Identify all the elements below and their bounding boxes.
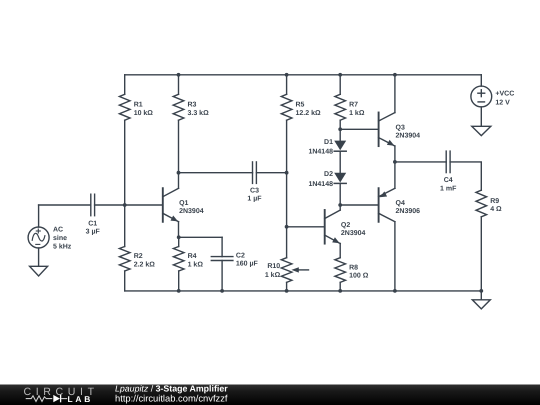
node C1 right: [123, 203, 127, 207]
node C3 right: [285, 171, 289, 175]
svg-text:R8: R8: [349, 264, 358, 271]
svg-text:1N4148: 1N4148: [308, 181, 333, 188]
wire R7 node to Q3 base: [340, 128, 378, 130]
node R3 top: [177, 73, 181, 77]
wire node to Q1 base: [125, 204, 163, 206]
resistor R1: [119, 75, 153, 205]
resistor R9: [476, 190, 502, 291]
ground (bottom rail): [472, 291, 490, 309]
svg-text:+VCC: +VCC: [495, 91, 514, 98]
wire D2 to node: [339, 183, 341, 205]
node R7 bottom: [338, 127, 342, 131]
resistor R3: [173, 75, 209, 173]
svg-text:2N3906: 2N3906: [396, 208, 421, 215]
svg-text:3.3 kΩ: 3.3 kΩ: [188, 109, 210, 117]
resistor R8: [335, 258, 369, 291]
svg-text:C2: C2: [236, 252, 245, 259]
wire Q2 base tee to Q2: [287, 226, 325, 228]
node R5 top: [285, 73, 289, 77]
transistor Q4 2N3906: [379, 162, 421, 291]
node C2 bottom rail: [220, 289, 224, 293]
svg-text:R9: R9: [490, 198, 499, 205]
svg-text:D1: D1: [324, 139, 333, 146]
node R7 top: [338, 73, 342, 77]
svg-text:R2: R2: [134, 253, 143, 260]
capacitor C1: [86, 194, 101, 236]
resistor R7: [335, 75, 365, 130]
resistor R5: [281, 75, 321, 173]
svg-text:Q1: Q1: [179, 200, 188, 207]
wire bottom rail: [125, 290, 482, 292]
svg-text:sine: sine: [53, 234, 67, 242]
potentiometer R10: [265, 258, 309, 291]
svg-text:1 kΩ: 1 kΩ: [349, 109, 365, 117]
svg-text:2N3904: 2N3904: [396, 132, 421, 139]
svg-text:3 µF: 3 µF: [86, 229, 101, 236]
svg-text:C3: C3: [250, 187, 259, 194]
wire top rail: [125, 74, 482, 76]
ground (VCC): [472, 126, 491, 135]
wire AC to C1: [39, 204, 91, 206]
svg-text:C1: C1: [88, 221, 97, 228]
node R8 bottom rail: [338, 289, 342, 293]
node D2 bottom: [338, 203, 342, 207]
svg-text:LAB: LAB: [68, 394, 94, 404]
node output: [393, 160, 397, 164]
svg-text:2.2 kΩ: 2.2 kΩ: [134, 260, 156, 268]
wire D1 to D2: [339, 151, 341, 173]
wire output node to C4: [395, 161, 446, 163]
AC source V2: [28, 205, 72, 266]
voltage source V1 +VCC: [471, 75, 514, 127]
svg-text:1 µF: 1 µF: [247, 195, 262, 202]
svg-text:http://circuitlab.com/cnvfzzf: http://circuitlab.com/cnvfzzf: [115, 393, 228, 404]
svg-text:R5: R5: [296, 102, 305, 109]
wire C1 to node: [95, 204, 125, 206]
capacitor C4: [440, 151, 457, 192]
wire C3 to R5 node: [256, 172, 286, 174]
wire C4 to R9: [450, 162, 481, 190]
svg-text:R1: R1: [134, 102, 143, 109]
wire tee down to R10: [286, 227, 288, 258]
svg-text:2N3904: 2N3904: [341, 230, 366, 237]
resistor R4: [173, 237, 203, 291]
node Q2 base tee: [285, 225, 289, 229]
wire Q1 collector node to C3: [179, 172, 253, 174]
svg-text:R4: R4: [188, 253, 197, 260]
svg-text:1 mF: 1 mF: [440, 185, 457, 192]
svg-text:1 kΩ: 1 kΩ: [265, 271, 281, 279]
resistor R2: [119, 205, 155, 291]
node R4 bottom rail: [177, 289, 181, 293]
svg-text:10 kΩ: 10 kΩ: [134, 109, 154, 117]
svg-text:Q2: Q2: [341, 222, 350, 229]
wire node to Q4 base: [340, 204, 378, 206]
svg-text:R10: R10: [267, 263, 280, 270]
diode D2 1N4148: [308, 171, 346, 188]
wire emitter node to C2: [179, 236, 222, 238]
svg-text:1 kΩ: 1 kΩ: [188, 260, 204, 268]
svg-text:AC: AC: [53, 226, 63, 233]
svg-text:1N4148: 1N4148: [308, 149, 333, 156]
svg-text:R3: R3: [188, 102, 197, 109]
node Q3 collector top: [393, 73, 397, 77]
svg-text:5 kHz: 5 kHz: [53, 243, 72, 251]
svg-text:R7: R7: [349, 102, 358, 109]
transistor Q1 2N3904: [163, 173, 204, 238]
node R10 bottom rail: [285, 289, 289, 293]
svg-text:Q4: Q4: [396, 200, 405, 207]
ground (AC source): [30, 266, 48, 276]
wire R5 node down to Q2 base tee: [286, 173, 288, 227]
capacitor C2: [211, 237, 258, 291]
CircuitLab logo: [24, 386, 99, 404]
transistor Q3 2N3904: [379, 75, 421, 162]
svg-text:C4: C4: [444, 177, 453, 184]
capacitor C3: [247, 162, 262, 203]
node ground rail: [479, 289, 483, 293]
svg-text:100 Ω: 100 Ω: [349, 273, 369, 280]
diode D1 1N4148: [308, 129, 346, 155]
svg-text:12.2 kΩ: 12.2 kΩ: [296, 109, 321, 117]
node Q1 collector: [177, 171, 181, 175]
svg-text:4 Ω: 4 Ω: [490, 206, 502, 213]
transistor Q2 2N3904: [325, 205, 366, 258]
svg-text:Q3: Q3: [396, 124, 405, 131]
svg-text:12 V: 12 V: [495, 99, 510, 106]
node Q4 collector rail: [393, 289, 397, 293]
node Q1 emitter: [177, 235, 181, 239]
svg-text:D2: D2: [324, 171, 333, 178]
svg-text:160 µF: 160 µF: [236, 261, 259, 268]
svg-text:2N3904: 2N3904: [179, 208, 204, 215]
